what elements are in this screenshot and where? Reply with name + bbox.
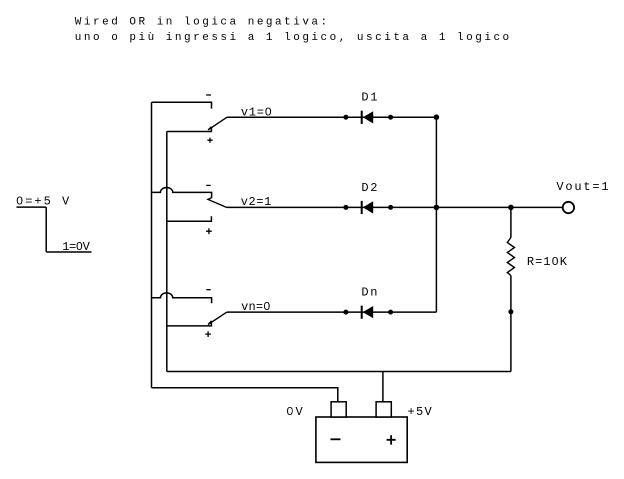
- +5V rail (inner left bus): [166, 132, 168, 372]
- label vn=0: [241, 300, 271, 314]
- svg-text:R=10K: R=10K: [527, 255, 568, 269]
- diode D1 anode junction dot: [343, 115, 348, 120]
- wire row 2 (v2 to D2 to output): [227, 206, 563, 208]
- legend waveform low segment: [46, 251, 91, 253]
- svg-text:1=0V: 1=0V: [62, 240, 90, 254]
- battery plus symbol: [387, 435, 396, 444]
- diode Dn cathode bar: [361, 306, 363, 319]
- diode D2 anode junction dot: [343, 205, 348, 210]
- diode D2 cathode bar: [361, 201, 363, 214]
- switch v2 minus throw wire with hop over +5V rail: [152, 188, 212, 199]
- label Dn: [361, 286, 379, 300]
- legend waveform high segment: [17, 206, 47, 208]
- diode D1 cathode bar: [361, 111, 363, 124]
- label D2: [361, 181, 379, 195]
- svg-text:0V: 0V: [286, 405, 304, 419]
- diode Dn cathode junction dot: [388, 310, 393, 315]
- title line 2: [75, 32, 512, 44]
- label v2=1: [241, 195, 272, 209]
- diode D1 triangle: [363, 111, 373, 123]
- svg-text:uno o più ingressi a 1 logico,: uno o più ingressi a 1 logico, uscita a …: [75, 32, 512, 44]
- label v1=0: [241, 106, 273, 120]
- battery plus terminal post: [376, 402, 391, 417]
- +5V rail bottom run to resistor bottom: [167, 371, 511, 373]
- switch v2 plus label: [206, 228, 212, 234]
- wire row 1 (v1 to D1 to bus): [227, 116, 437, 118]
- switch v1 minus label: [206, 94, 211, 96]
- node bus/row2 crossing dot: [434, 205, 440, 211]
- switch vn minus throw wire with hop over +5V rail: [152, 293, 212, 303]
- label D1: [361, 90, 379, 104]
- resistor R upper lead: [510, 207, 512, 237]
- output terminal Vout circle: [563, 202, 574, 213]
- node resistor top junction dot: [508, 205, 514, 211]
- legend label 1=0V: [62, 240, 90, 254]
- diode Dn triangle: [363, 306, 373, 318]
- switch vn arm: [208, 312, 227, 324]
- svg-text:D2: D2: [361, 181, 379, 195]
- switch vn plus throw wire: [167, 321, 212, 326]
- label 0V: [286, 405, 304, 419]
- label +5V: [408, 405, 434, 419]
- switch vn minus label: [206, 289, 210, 291]
- battery B1 case: [316, 417, 407, 462]
- wire row 3 (vn to Dn to bus): [227, 311, 437, 313]
- svg-text:Dn: Dn: [361, 286, 379, 300]
- node row1/bus corner dot: [434, 114, 440, 120]
- resistor R lower lead: [510, 276, 512, 372]
- wire collector bus vertical: [435, 117, 437, 312]
- label R=10K: [527, 255, 568, 269]
- resistor R zigzag body: [507, 238, 514, 276]
- title line 1: [75, 17, 330, 29]
- svg-text:D1: D1: [361, 90, 379, 104]
- switch v1 minus throw wire: [152, 102, 212, 108]
- diode D2 cathode junction dot: [388, 205, 393, 210]
- svg-text:Wired OR in logica negativa:: Wired OR in logica negativa:: [75, 17, 330, 29]
- switch v1 plus label: [207, 138, 212, 143]
- svg-text:+5V: +5V: [408, 405, 434, 419]
- 0V rail (outer left bus): [151, 102, 153, 388]
- label Vout=1: [556, 180, 610, 194]
- switch v2 arm: [208, 198, 227, 208]
- switch v1 plus throw wire: [167, 127, 212, 132]
- legend waveform step edge: [45, 207, 47, 252]
- switch v1 arm: [208, 117, 227, 130]
- battery minus terminal post: [331, 402, 346, 417]
- legend label 0=+5 V: [16, 195, 71, 209]
- diode D2 triangle: [363, 201, 373, 213]
- switch vn plus label: [205, 331, 211, 337]
- svg-text:Vout=1: Vout=1: [556, 180, 610, 194]
- diode Dn anode junction dot: [343, 310, 348, 315]
- wire battery plus stub: [382, 372, 384, 403]
- switch v2 plus throw wire: [167, 216, 212, 221]
- switch v2 minus label: [206, 184, 210, 186]
- node dot on resistor lower lead: [508, 309, 513, 314]
- 0V rail bottom run to battery minus terminal: [152, 388, 338, 402]
- diode D1 cathode junction dot: [388, 115, 393, 120]
- battery minus symbol: [331, 438, 341, 440]
